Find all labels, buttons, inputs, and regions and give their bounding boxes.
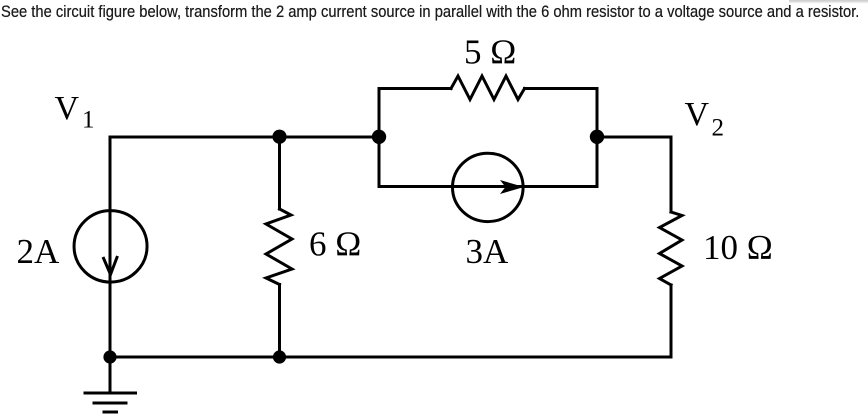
svg-text:2A: 2A	[17, 232, 61, 271]
svg-text:2: 2	[712, 115, 725, 142]
svg-text:5 Ω: 5 Ω	[464, 33, 516, 72]
svg-text:V: V	[685, 96, 710, 133]
svg-text:V: V	[55, 90, 80, 127]
svg-text:3A: 3A	[466, 232, 510, 271]
svg-text:1: 1	[82, 107, 95, 134]
svg-text:10 Ω: 10 Ω	[703, 228, 773, 267]
svg-text:6 Ω: 6 Ω	[309, 225, 361, 264]
